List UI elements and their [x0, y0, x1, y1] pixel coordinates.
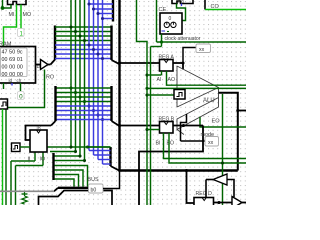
splitter IR-side diagonal — [51, 121, 56, 126]
splitter bus-in-upper diagonal to bus — [112, 60, 120, 64]
svg-text:IR: IR — [37, 125, 41, 130]
wire RAM bit7 horizontal — [55, 26, 112, 28]
wire IR bit6 horizontal — [56, 92, 112, 94]
attenuator dial 2 — [171, 22, 176, 27]
clock CLK component — [0, 99, 8, 109]
wire REG B BI input — [145, 128, 148, 131]
wire to REG A clock box — [147, 94, 174, 96]
wire IR data in — [26, 126, 52, 141]
wire green bus bit0 vertical — [70, 0, 72, 147]
wire REG A out to ALU A input — [182, 63, 184, 70]
wire RAM bit1 horizontal — [55, 53, 112, 55]
wire mode elbow — [181, 114, 187, 141]
splitter bus-low diagonal — [111, 166, 120, 171]
wire attenuator out pin — [161, 34, 163, 47]
svg-text:clr: clr — [17, 78, 22, 83]
wire blue top leg 0 — [89, 3, 113, 5]
wire blue bus bit5 vertical — [93, 0, 95, 155]
tri-state buffer REG D out — [232, 197, 242, 209]
svg-text:BUS: BUS — [88, 177, 99, 183]
svg-text:0 0: 0 0 — [178, 0, 184, 4]
svg-text:BI: BI — [156, 141, 161, 147]
wire REG A out to probe — [183, 48, 196, 64]
wire IR out to bus-low splitter — [47, 146, 111, 148]
wire blue staircase leg 0 — [89, 150, 111, 152]
splitter bus-in-lower diagonal to bus — [112, 121, 120, 126]
wire control pair lower right (dark green) — [169, 133, 246, 163]
junction bus to REG D — [185, 169, 188, 172]
svg-text:MO: MO — [23, 12, 32, 18]
svg-text:RO: RO — [46, 75, 54, 81]
wire MAR address out to RAM (bright green) — [4, 5, 17, 47]
svg-text:CO: CO — [211, 4, 220, 10]
ALU body — [177, 66, 219, 135]
wire clock to IR — [20, 146, 30, 148]
wire PC clock from attenuator — [177, 4, 186, 21]
wire RO control — [6, 70, 45, 206]
RAM data out wire — [36, 64, 41, 66]
wire RAM bit4 horizontal — [55, 40, 112, 42]
register REG A box — [160, 60, 174, 72]
bus horizontal bottom — [118, 169, 238, 171]
wire EO out (dark green) — [200, 117, 246, 127]
wire IR bit0 horizontal — [56, 119, 112, 121]
wire IR bit7 horizontal — [56, 87, 112, 89]
wire green bus bit1 vertical — [75, 0, 77, 152]
wire RAM bit3 horizontal — [55, 44, 112, 46]
wire control pair upper right (dark green) — [164, 133, 247, 159]
register PC box bottom — [172, 0, 193, 4]
RAM ld pin stub (blue) — [11, 83, 13, 86]
wire CO from PC (bright green) — [205, 9, 246, 11]
attenuator dial 1 — [164, 22, 169, 27]
svg-text:00 69 01: 00 69 01 — [2, 57, 23, 63]
pull resistor — [22, 193, 28, 195]
wire inverter output to buffer control — [227, 180, 234, 198]
wire undefined-width (gray) — [0, 190, 54, 192]
junction AI wire — [145, 93, 148, 96]
wire EO pair upper (dark green) — [167, 71, 247, 85]
wire inverter input — [206, 179, 213, 181]
splitter RAM-out spine — [54, 26, 56, 60]
wire clock distribution (dark green) — [157, 41, 247, 43]
control splitter leg D — [55, 179, 75, 187]
wire CE (dark green) — [156, 0, 158, 42]
svg-text:AI: AI — [157, 77, 162, 83]
svg-text:BO: BO — [167, 141, 175, 147]
splitter bus-low spine — [109, 147, 111, 166]
wire IR bit3 horizontal — [56, 105, 112, 107]
junction REG B out / ALU B pin — [182, 124, 185, 127]
wire IR bit1 horizontal — [56, 114, 112, 116]
wire MAR write-enable (dark green) — [2, 0, 4, 8]
wire blue top leg 2 — [98, 13, 113, 15]
buffer output wire to splitter — [48, 64, 51, 66]
bus vertical — [118, 0, 120, 171]
wire blue staircase leg 2 — [98, 159, 111, 161]
wire CO vertical — [204, 0, 206, 10]
junction dots bundle A — [69, 25, 72, 28]
wire IO staircase — [42, 152, 44, 166]
wire blue bus bit4 vertical — [88, 0, 90, 151]
tri-state buffer RAM out — [41, 60, 49, 70]
junction dots bundle B — [69, 86, 72, 89]
wire REG A AI input — [145, 73, 148, 76]
controller box — [39, 191, 113, 206]
wire blue top leg 1 — [94, 8, 114, 10]
wire blue bus bit6 vertical — [97, 0, 99, 160]
splitter control spine horizontal — [58, 187, 89, 189]
svg-text:b0: b0 — [91, 188, 97, 194]
wire ALU output — [219, 93, 238, 171]
splitter bus-in-upper spine — [110, 26, 112, 61]
wire RAM bit2 horizontal — [55, 49, 112, 51]
wire IR bit5 horizontal — [56, 96, 112, 98]
wire blue bus bit7 vertical — [102, 0, 104, 164]
svg-text:MI: MI — [9, 12, 15, 18]
svg-text:xx: xx — [208, 140, 214, 146]
RAM contents display — [1, 48, 28, 77]
svg-text:CE: CE — [159, 7, 167, 13]
wire REG D out — [214, 202, 233, 204]
svg-text:II: II — [28, 157, 31, 163]
wire IR bit2 horizontal — [56, 110, 112, 112]
probe xx mode — [205, 137, 219, 147]
RAM address pin wire (dark green) — [3, 83, 5, 89]
register IR box — [30, 130, 47, 152]
wire RAM bit0 horizontal — [55, 58, 112, 60]
splitter top spine — [112, 0, 114, 22]
wire blue staircase leg 1 — [94, 154, 111, 156]
svg-text:xx: xx — [199, 47, 205, 53]
wire bit line 3 to control splitter — [55, 155, 81, 157]
svg-text:0: 0 — [169, 16, 172, 22]
wire b0 probe to bus — [103, 171, 120, 189]
splitter control diagonal — [54, 188, 58, 192]
svg-text:00 00 00: 00 00 00 — [2, 65, 23, 71]
wire MO pin to probe (bright green) — [20, 5, 22, 30]
probe value 1 — [18, 29, 25, 37]
wire buffer out — [242, 202, 246, 204]
wire RAM bit6 horizontal — [55, 31, 112, 33]
probe b0 — [89, 184, 104, 193]
wire bus down to REG D — [187, 171, 195, 204]
svg-text:REG D: REG D — [196, 191, 213, 197]
svg-text:47 50 9c: 47 50 9c — [2, 50, 23, 56]
splitter IR-side spine — [54, 86, 56, 121]
svg-text:IO: IO — [40, 157, 45, 163]
wire EO control vertical — [222, 94, 224, 205]
inverter clock REG D — [213, 174, 227, 185]
PC pin stub (blue) — [181, 4, 183, 7]
wire control vertical 2 — [151, 46, 162, 48]
splitter bus-in-lower spine — [110, 86, 112, 121]
wire blue top leg 3 — [103, 18, 114, 20]
register REG D box — [194, 198, 214, 208]
register REG B box — [160, 122, 174, 134]
wire control vertical 1 — [137, 0, 148, 205]
control splitter leg B — [55, 170, 84, 187]
control splitter leg C — [55, 175, 79, 187]
wire bit line 2 left — [50, 151, 76, 153]
svg-text:ld: ld — [9, 78, 13, 83]
wire blue staircase leg 3 — [103, 163, 111, 165]
svg-text:EO: EO — [212, 119, 221, 125]
svg-text:AO: AO — [168, 77, 176, 83]
splitter RAM-out diagonal — [51, 60, 56, 65]
svg-text:ALU: ALU — [203, 98, 215, 104]
wire mode probe — [181, 140, 206, 142]
control splitter leg A — [55, 166, 88, 187]
clock attenuator box — [160, 13, 182, 34]
clock input for REG A — [174, 90, 185, 100]
register MAR (MI/MO) box bottom — [8, 0, 27, 5]
wire green bus bit3 vertical — [84, 0, 86, 161]
wire flags stub — [238, 110, 246, 112]
wire green bus bit2 vertical — [79, 0, 81, 156]
wire IR bit4 horizontal — [56, 101, 112, 103]
splitter control spine vertical — [52, 153, 54, 180]
svg-text:clock attenuator: clock attenuator — [165, 36, 201, 42]
wire REG B out — [173, 125, 203, 127]
wire bit line 4 to control splitter — [55, 160, 85, 162]
wire REG B out down path — [139, 126, 203, 206]
clock input for IR — [12, 143, 21, 152]
probe value 0 — [18, 92, 25, 100]
wire EO pair lower (dark green) — [147, 87, 246, 89]
wire IR-out line to low splitter (green leg) — [88, 146, 111, 148]
attenuator bottom marks — [162, 30, 166, 32]
RAM clr pin wire (dark green) — [20, 83, 22, 91]
probe xx top — [196, 44, 211, 53]
wire REG A out — [173, 62, 183, 64]
wire RAM bit5 horizontal — [55, 35, 112, 37]
RAM component box — [0, 47, 36, 84]
wire clock out (bright green) — [2, 109, 4, 205]
bus branch to REG B — [120, 125, 160, 127]
junction at MI wire — [1, 6, 5, 10]
wire II staircase — [34, 152, 36, 161]
bus branch to REG A — [120, 62, 160, 64]
